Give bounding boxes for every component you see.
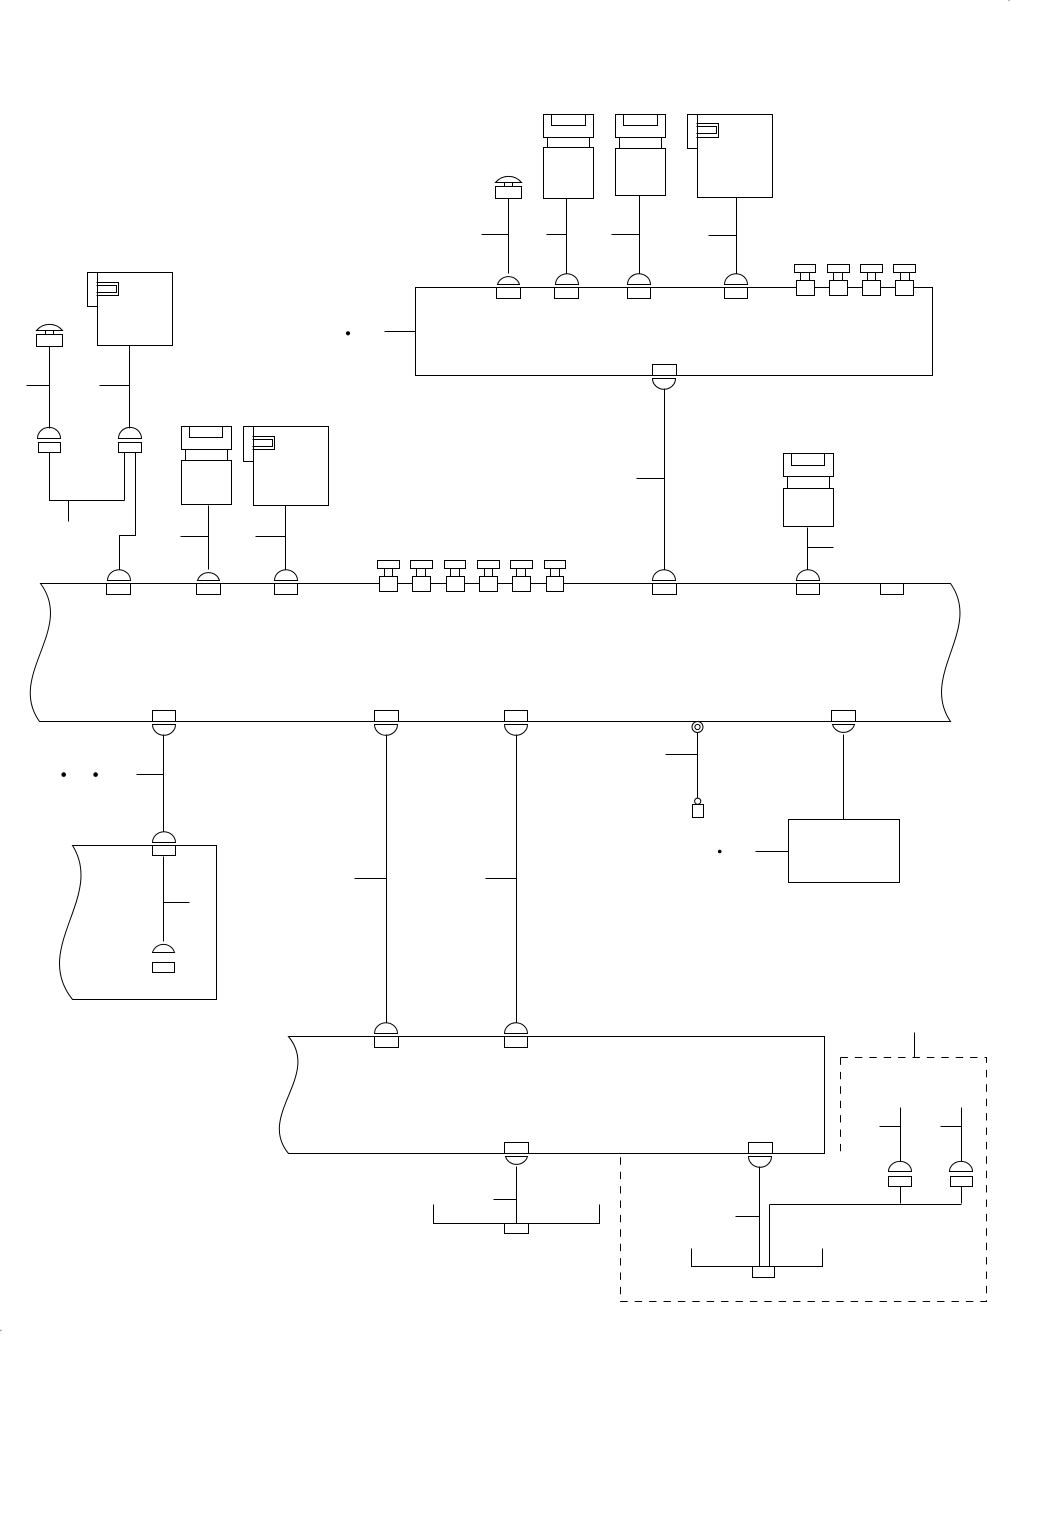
wire from CN503 to chassis bar: [516, 1167, 518, 1224]
terminal lug at end of ground lead: [693, 798, 704, 817]
board E (lower bus PCB with torn wavy left edge): [279, 1037, 824, 1154]
wire from CN204 left pin: [124, 453, 126, 501]
board A (top bus PCB outline): [416, 288, 933, 376]
stub wire above pair CN505: [900, 1108, 902, 1162]
connector CN307 board-in connector on board C: [478, 561, 500, 592]
wire tick: [27, 385, 50, 387]
connector CN108 board-in connector on board A: [795, 265, 816, 296]
connector pair CN506 (unmated plug and socket): [950, 1161, 973, 1186]
wire from CN315 to board E: [516, 735, 518, 1023]
node E (grounding eyelet below board C): [692, 722, 703, 733]
connector CN205 plug: [182, 427, 232, 505]
connector CN110 board-in connector on board A: [861, 265, 883, 296]
connector CN104 on board A: [497, 277, 521, 299]
connector CN303 on board C: [275, 570, 298, 595]
connector CN102 plug: [544, 115, 594, 199]
wire tick: [666, 754, 698, 756]
connector CN304 board-in connector on board C: [378, 561, 400, 592]
wire from CN112 to board C: [664, 389, 666, 570]
wire across dashed enclosure: [770, 1204, 962, 1206]
wire tick: [137, 774, 164, 776]
chassis bar terminal (wide bracket): [692, 1249, 823, 1278]
wire from CN313 to board D: [163, 735, 165, 832]
wire below CN506: [961, 1187, 963, 1204]
wire tick: [709, 235, 737, 237]
connector CN316 on bottom of board C: [832, 711, 856, 733]
connector CN105 on board A: [555, 274, 579, 299]
connector CN310 on board C: [653, 570, 677, 595]
connector pair CN505 (unmated plug and socket): [889, 1161, 912, 1186]
connector CN103 plug: [616, 115, 666, 196]
wire from CN101 to board A: [508, 199, 510, 274]
connector CN315 on bottom of board C: [505, 711, 528, 736]
connector CN206 plug: [784, 454, 834, 527]
connector CN314 on bottom of board C: [375, 711, 399, 736]
connector CN101 small cap plug: [496, 176, 522, 198]
stray mark top margin: [1008, 0, 1010, 1]
module box B1 with keyed connector flag: [688, 115, 773, 198]
wire from CN201 to pair CN203: [49, 347, 51, 429]
wire tick: [494, 1199, 517, 1201]
wire from CN102 to board A: [566, 199, 568, 274]
wire tick (right side): [164, 902, 190, 904]
wire from CN103 to board A: [639, 196, 641, 274]
connector CN301 on board C: [107, 570, 131, 595]
board C (main bus PCB with torn wavy ends): [30, 584, 960, 722]
connector CN305 board-in connector on board C: [411, 561, 433, 592]
wire tick: [256, 536, 286, 538]
node dot: [718, 850, 722, 854]
connector CN112 on bottom of board A: [653, 365, 677, 390]
wire tick (right side): [808, 547, 834, 549]
module box B4: [789, 820, 900, 883]
wire below CN505: [900, 1187, 902, 1204]
connector CN111 board-in connector on board A: [894, 265, 916, 296]
wire tick: [181, 536, 209, 538]
wire inside board D: [163, 857, 165, 942]
connector pair CN204 (plug over socket): [119, 427, 142, 452]
wire tick: [880, 1126, 901, 1128]
connector CN306 board-in connector on board C: [445, 561, 466, 592]
connector CN109 board-in connector on board A: [828, 265, 850, 296]
wire from CN204 right pin to board C: [120, 453, 136, 570]
wire from CN203 joining CN204 branch: [50, 453, 125, 501]
connector pair CN203 (plug over socket): [38, 427, 61, 452]
connector CN313 on bottom of board C: [153, 711, 176, 736]
stub wire above pair CN506: [961, 1108, 963, 1162]
node dot: [93, 772, 98, 777]
connector CN302 on board C: [197, 573, 221, 595]
wire from CN205 to board C: [208, 506, 210, 570]
module box B3 with keyed connector flag: [244, 427, 329, 506]
wire tick: [486, 878, 517, 880]
wire from box B2 to pair CN204: [129, 346, 131, 429]
wire tick: [941, 1126, 962, 1128]
wire tick: [612, 234, 640, 236]
connector CN309 board-in connector on board C: [545, 561, 566, 592]
connector CN312 socket on board C (unmated): [881, 584, 904, 595]
wire tick: [547, 234, 567, 236]
wire tick: [482, 234, 509, 236]
lead entering dashed enclosure: [914, 1033, 916, 1058]
wire stub into board A left edge: [385, 331, 416, 333]
connector CN503 on bottom of board E: [505, 1143, 529, 1165]
stray mark left margin: [0, 1330, 2, 1331]
node dot left of board A: [346, 331, 350, 335]
wire from box B3 to board C: [285, 506, 287, 570]
wire from CN316 to box B4: [843, 735, 845, 820]
wire from box B1 to board A: [736, 198, 738, 274]
chassis bar terminal (wide bracket): [434, 1205, 600, 1234]
connector CN201 small cap plug: [37, 324, 63, 346]
wire tick: [100, 385, 130, 387]
wire tick: [736, 1216, 760, 1218]
board D (PCB outline with torn wavy left edge): [59, 846, 216, 1000]
connector CN311 on board C: [797, 570, 820, 595]
connector pair CN402 (unmated plug and socket): [153, 944, 175, 972]
node dot: [61, 772, 66, 777]
ground lead from eyelet: [697, 733, 699, 799]
wire from CN206 to board C: [807, 528, 809, 570]
connector CN308 board-in connector on board C: [511, 561, 533, 592]
connector CN504 on bottom of board E: [749, 1143, 773, 1168]
connector CN502 on board E: [505, 1023, 528, 1048]
module box B2 with keyed connector flag: [88, 273, 173, 346]
wire from CN314 to board E: [386, 735, 388, 1023]
connector CN107 on board A: [725, 274, 748, 299]
wire from branch node to chassis bar: [769, 1205, 771, 1267]
wire from CN504 to chassis bar: [759, 1167, 761, 1267]
connector CN401 on board D: [153, 832, 176, 856]
lead into box B4: [756, 851, 789, 853]
dashed optional-unit enclosure: [621, 1058, 987, 1302]
connector CN501 on board E: [375, 1023, 399, 1048]
connector CN106 on board A: [628, 274, 651, 299]
wire tick: [637, 478, 665, 480]
wire tick: [355, 878, 387, 880]
stub wire hanging from joint: [68, 501, 70, 522]
